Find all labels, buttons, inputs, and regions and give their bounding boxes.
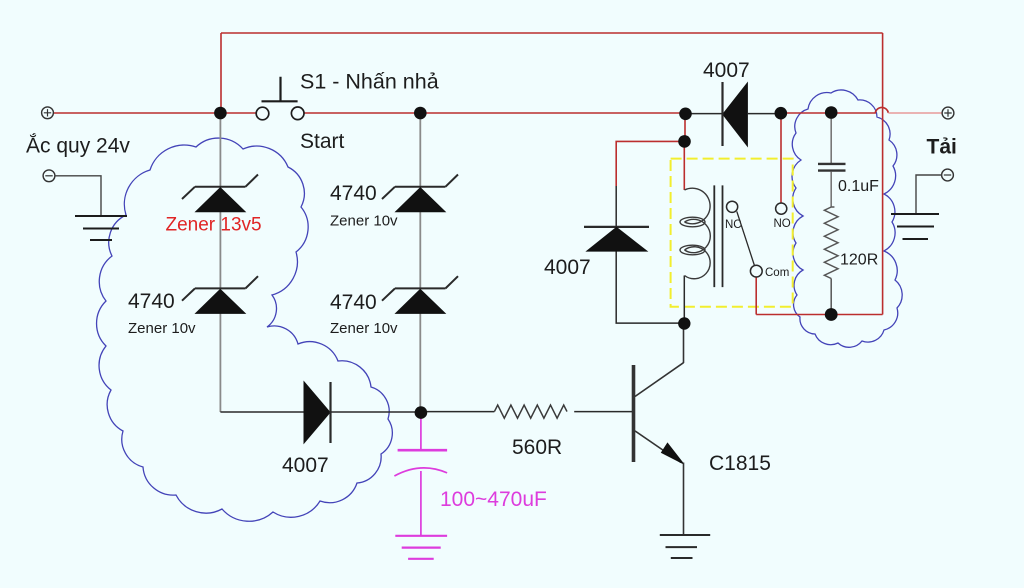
svg-text:4740: 4740 xyxy=(128,290,175,313)
relay core xyxy=(714,185,722,287)
wire: battery - to ground (black elbow) xyxy=(55,176,101,216)
wire: branch node down to relay coil (red) xyxy=(683,141,685,190)
zener D3 4740 (col2 top) xyxy=(382,175,458,212)
switch S1 (push button) xyxy=(256,77,304,120)
relay coil L1 xyxy=(680,188,710,279)
svg-text:Zener 10v: Zener 10v xyxy=(330,213,398,230)
relay contact NC xyxy=(727,201,738,212)
wire: base node to 560R and to transistor base (black) xyxy=(421,411,632,413)
wire: latch loop right vertical (red) xyxy=(882,33,884,315)
ground (capacitor, magenta) xyxy=(395,536,447,559)
svg-text:4740: 4740 xyxy=(330,291,377,314)
svg-text:120R: 120R xyxy=(840,252,878,269)
wire: zener column 1 to series diode (black) xyxy=(220,411,304,413)
wire: free-wheel diode anode to bottom node (black elbow) xyxy=(616,251,684,323)
capacitor C2 0.1uF xyxy=(818,113,846,208)
wire: load - to ground (black elbow) xyxy=(916,175,942,214)
wire: series diode to base node (black) xyxy=(331,411,421,413)
load terminal + xyxy=(942,107,954,119)
wire: latch loop left vertical (red) xyxy=(220,33,222,113)
svg-text:Start: Start xyxy=(300,130,345,153)
wire: NO contact to bus node (red) xyxy=(780,113,782,203)
transistor Q1 C1815 xyxy=(634,363,684,464)
resistor 120R xyxy=(824,207,838,279)
zener D1 Zener 13v5 (col1 top) xyxy=(182,175,258,212)
svg-text:NO: NO xyxy=(774,218,791,230)
battery terminal + xyxy=(42,107,54,119)
load terminal - xyxy=(942,169,954,181)
svg-text:Com: Com xyxy=(765,267,789,279)
node: relay bottom / collector xyxy=(678,317,690,329)
wire: hop to load + terminal (light pink) xyxy=(888,112,941,114)
diode D6 4007 (top, horizontal, pointing left) xyxy=(686,82,781,146)
relay switch arm NC-Com xyxy=(737,211,755,266)
wire: Com contact down lead (red) xyxy=(755,277,757,315)
node: snubber bottom / latch return xyxy=(825,308,838,321)
diode D7 4007 (free-wheel, vertical, pointing up) xyxy=(584,227,649,251)
svg-text:Zener 13v5: Zener 13v5 xyxy=(166,215,262,236)
wire: main bus switch to diode node (red) xyxy=(304,112,686,114)
node: bus / NO contact xyxy=(775,107,788,120)
svg-text:S1 - Nhấn nhả: S1 - Nhấn nhả xyxy=(300,70,439,94)
node: bus / zener col2 xyxy=(414,107,427,120)
wire: zener column 1 vertical (gray) xyxy=(219,113,221,187)
wire: zener column 2 vertical (gray) xyxy=(419,113,421,187)
relay contact NO xyxy=(776,203,787,214)
svg-text:Zener 10v: Zener 10v xyxy=(330,320,398,337)
annotation cloud (left, around zeners and 4007) xyxy=(97,138,393,521)
wire: relay coil bottom to node (black) xyxy=(683,276,685,324)
zener D4 4740 (col2 bottom) xyxy=(382,276,458,313)
svg-text:Tải: Tải xyxy=(927,136,957,159)
svg-text:Ắc quy 24v: Ắc quy 24v xyxy=(26,134,130,158)
wire: emitter to ground (black) xyxy=(683,463,685,536)
relay contact Com xyxy=(750,265,762,277)
node: bus / snubber top xyxy=(825,106,838,119)
svg-text:100~470uF: 100~470uF xyxy=(440,488,547,511)
wire: collector to relay node (black) xyxy=(683,323,685,363)
zener D2 4740 (col1 bottom) xyxy=(182,276,258,313)
svg-text:NC: NC xyxy=(725,219,742,231)
battery terminal - xyxy=(43,170,55,182)
svg-text:560R: 560R xyxy=(512,436,562,459)
wire: node to relay-diode branch (red, short vertical) xyxy=(684,114,686,141)
svg-text:4007: 4007 xyxy=(703,59,750,82)
relay K1 outline (yellow dashed box) xyxy=(671,159,793,307)
svg-text:4007: 4007 xyxy=(282,454,329,477)
wire: latch loop bottom horizontal from Com (red) xyxy=(756,314,882,316)
diode D5 4007 (series, horizontal, pointing right) xyxy=(304,382,331,443)
svg-text:Zener 10v: Zener 10v xyxy=(128,320,196,337)
node: relay branch xyxy=(678,135,691,148)
ground (emitter) xyxy=(660,535,710,558)
svg-text:4007: 4007 xyxy=(544,256,591,279)
node: bus / diode cathode xyxy=(679,108,692,121)
wire: free-wheel diode cathode lead (black) xyxy=(615,186,617,227)
wire: main bus battery+ to switch (red) xyxy=(53,112,256,114)
ground (battery) xyxy=(75,216,127,240)
annotation cloud (right, around 0.1uF and 120R) xyxy=(792,90,902,347)
node: base drive / capacitor xyxy=(415,406,428,419)
node: bus / zener col1 xyxy=(214,107,227,120)
svg-text:C1815: C1815 xyxy=(709,452,771,475)
svg-text:4740: 4740 xyxy=(330,182,377,205)
svg-text:0.1uF: 0.1uF xyxy=(838,178,879,195)
wire: branch node to free-wheel diode (red elbow) xyxy=(616,141,684,186)
resistor 560R xyxy=(494,405,567,418)
capacitor C1 100~470uF (electrolytic, magenta) xyxy=(394,418,447,536)
wire: bus segment diode cathode node to hop (red) with crossover hop xyxy=(781,107,888,113)
ground (load) xyxy=(891,214,939,239)
wire: latch loop top horizontal (red) xyxy=(221,32,883,34)
